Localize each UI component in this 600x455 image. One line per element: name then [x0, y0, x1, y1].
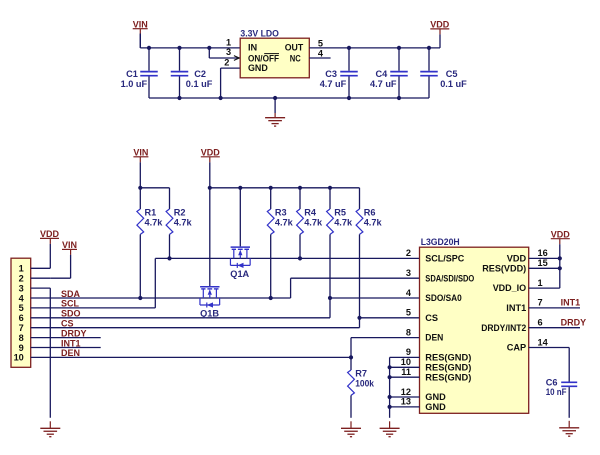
svg-text:6: 6 [19, 313, 24, 323]
svg-text:VDD: VDD [551, 229, 571, 239]
svg-text:R3: R3 [275, 208, 287, 218]
svg-text:R1: R1 [145, 208, 157, 218]
svg-text:8: 8 [406, 327, 411, 337]
svg-text:DEN: DEN [61, 348, 80, 358]
svg-text:C4: C4 [376, 69, 389, 79]
svg-text:VIN: VIN [133, 19, 148, 29]
svg-text:R5: R5 [334, 208, 346, 218]
svg-text:4: 4 [406, 288, 412, 298]
svg-text:15: 15 [538, 258, 548, 268]
svg-text:4.7k: 4.7k [174, 217, 193, 227]
svg-text:1.0 uF: 1.0 uF [121, 79, 148, 89]
svg-text:RES(GND): RES(GND) [425, 372, 471, 382]
svg-text:3: 3 [226, 47, 231, 57]
svg-text:RES(VDD): RES(VDD) [482, 263, 526, 273]
svg-text:C3: C3 [325, 69, 337, 79]
svg-text:11: 11 [401, 367, 411, 377]
svg-text:7: 7 [538, 298, 543, 308]
svg-text:L3GD20H: L3GD20H [421, 237, 460, 247]
svg-text:SCL/SPC: SCL/SPC [425, 254, 464, 264]
svg-text:ON/OFF: ON/OFF [248, 53, 279, 63]
svg-text:3.3V LDO: 3.3V LDO [240, 28, 279, 38]
svg-text:1: 1 [226, 38, 231, 48]
svg-text:R7: R7 [355, 369, 367, 379]
svg-text:VDD: VDD [201, 147, 221, 157]
svg-text:2: 2 [19, 274, 24, 284]
svg-text:CS: CS [425, 313, 438, 323]
svg-text:10: 10 [401, 357, 411, 367]
svg-text:7: 7 [19, 323, 24, 333]
svg-text:GND: GND [425, 392, 446, 402]
svg-text:DRDY: DRDY [61, 328, 87, 338]
svg-text:13: 13 [401, 397, 411, 407]
svg-text:C2: C2 [194, 69, 206, 79]
svg-text:Q1B: Q1B [200, 309, 219, 319]
svg-text:4.7k: 4.7k [334, 217, 353, 227]
svg-text:SDA/SDI/SDO: SDA/SDI/SDO [425, 273, 474, 283]
svg-text:OUT: OUT [285, 43, 304, 53]
svg-text:100k: 100k [355, 378, 375, 388]
svg-text:CAP: CAP [507, 343, 526, 353]
svg-text:8: 8 [19, 333, 24, 343]
svg-text:DRDY: DRDY [561, 317, 587, 327]
svg-text:5: 5 [318, 38, 323, 48]
svg-text:4: 4 [318, 49, 324, 59]
svg-text:10: 10 [14, 353, 24, 363]
svg-text:VDD_IO: VDD_IO [493, 283, 527, 293]
svg-text:SCL: SCL [61, 299, 80, 309]
svg-text:1: 1 [19, 264, 24, 274]
svg-text:VIN: VIN [133, 147, 148, 157]
svg-text:16: 16 [538, 248, 548, 258]
svg-text:SDO: SDO [61, 309, 81, 319]
svg-text:RES(GND): RES(GND) [425, 362, 471, 372]
svg-text:4.7k: 4.7k [364, 217, 383, 227]
svg-text:4.7k: 4.7k [145, 217, 164, 227]
svg-text:DRDY/INT2: DRDY/INT2 [481, 323, 526, 333]
svg-text:VIN: VIN [62, 240, 77, 250]
svg-text:C1: C1 [126, 69, 138, 79]
svg-text:C5: C5 [446, 69, 458, 79]
svg-text:Q1A: Q1A [230, 269, 249, 279]
svg-text:4.7k: 4.7k [275, 217, 294, 227]
svg-text:VDD: VDD [507, 254, 527, 264]
svg-text:2: 2 [224, 58, 229, 68]
svg-text:4.7k: 4.7k [304, 217, 323, 227]
svg-text:3: 3 [406, 268, 411, 278]
svg-text:R6: R6 [364, 208, 376, 218]
svg-text:RES(GND): RES(GND) [425, 353, 471, 363]
svg-text:12: 12 [401, 387, 411, 397]
svg-text:3: 3 [19, 283, 24, 293]
svg-text:NC: NC [290, 53, 301, 63]
svg-text:5: 5 [406, 308, 411, 318]
svg-text:INT1: INT1 [506, 303, 526, 313]
svg-text:GND: GND [248, 63, 268, 73]
svg-text:0.1 uF: 0.1 uF [440, 79, 467, 89]
svg-text:SDO/SA0: SDO/SA0 [425, 293, 462, 303]
svg-text:INT1: INT1 [61, 338, 81, 348]
svg-text:9: 9 [19, 343, 24, 353]
svg-text:4.7 uF: 4.7 uF [370, 79, 397, 89]
svg-text:CS: CS [61, 319, 74, 329]
svg-text:R2: R2 [174, 208, 186, 218]
svg-text:10 nF: 10 nF [546, 387, 567, 397]
svg-text:9: 9 [406, 347, 411, 357]
svg-text:SDA: SDA [61, 289, 81, 299]
svg-text:2: 2 [406, 248, 411, 258]
svg-text:0.1 uF: 0.1 uF [186, 79, 213, 89]
svg-text:INT1: INT1 [561, 298, 581, 308]
svg-text:5: 5 [19, 303, 24, 313]
svg-text:DEN: DEN [425, 333, 443, 343]
svg-text:VDD: VDD [40, 229, 60, 239]
svg-text:R4: R4 [304, 208, 317, 218]
svg-text:1: 1 [538, 278, 543, 288]
svg-text:C6: C6 [546, 377, 558, 387]
svg-text:IN: IN [248, 43, 258, 53]
svg-text:VDD: VDD [430, 20, 450, 30]
svg-text:4: 4 [19, 293, 25, 303]
svg-text:4.7 uF: 4.7 uF [320, 79, 347, 89]
svg-text:6: 6 [538, 318, 543, 328]
svg-text:14: 14 [538, 337, 549, 347]
svg-text:GND: GND [425, 402, 446, 412]
